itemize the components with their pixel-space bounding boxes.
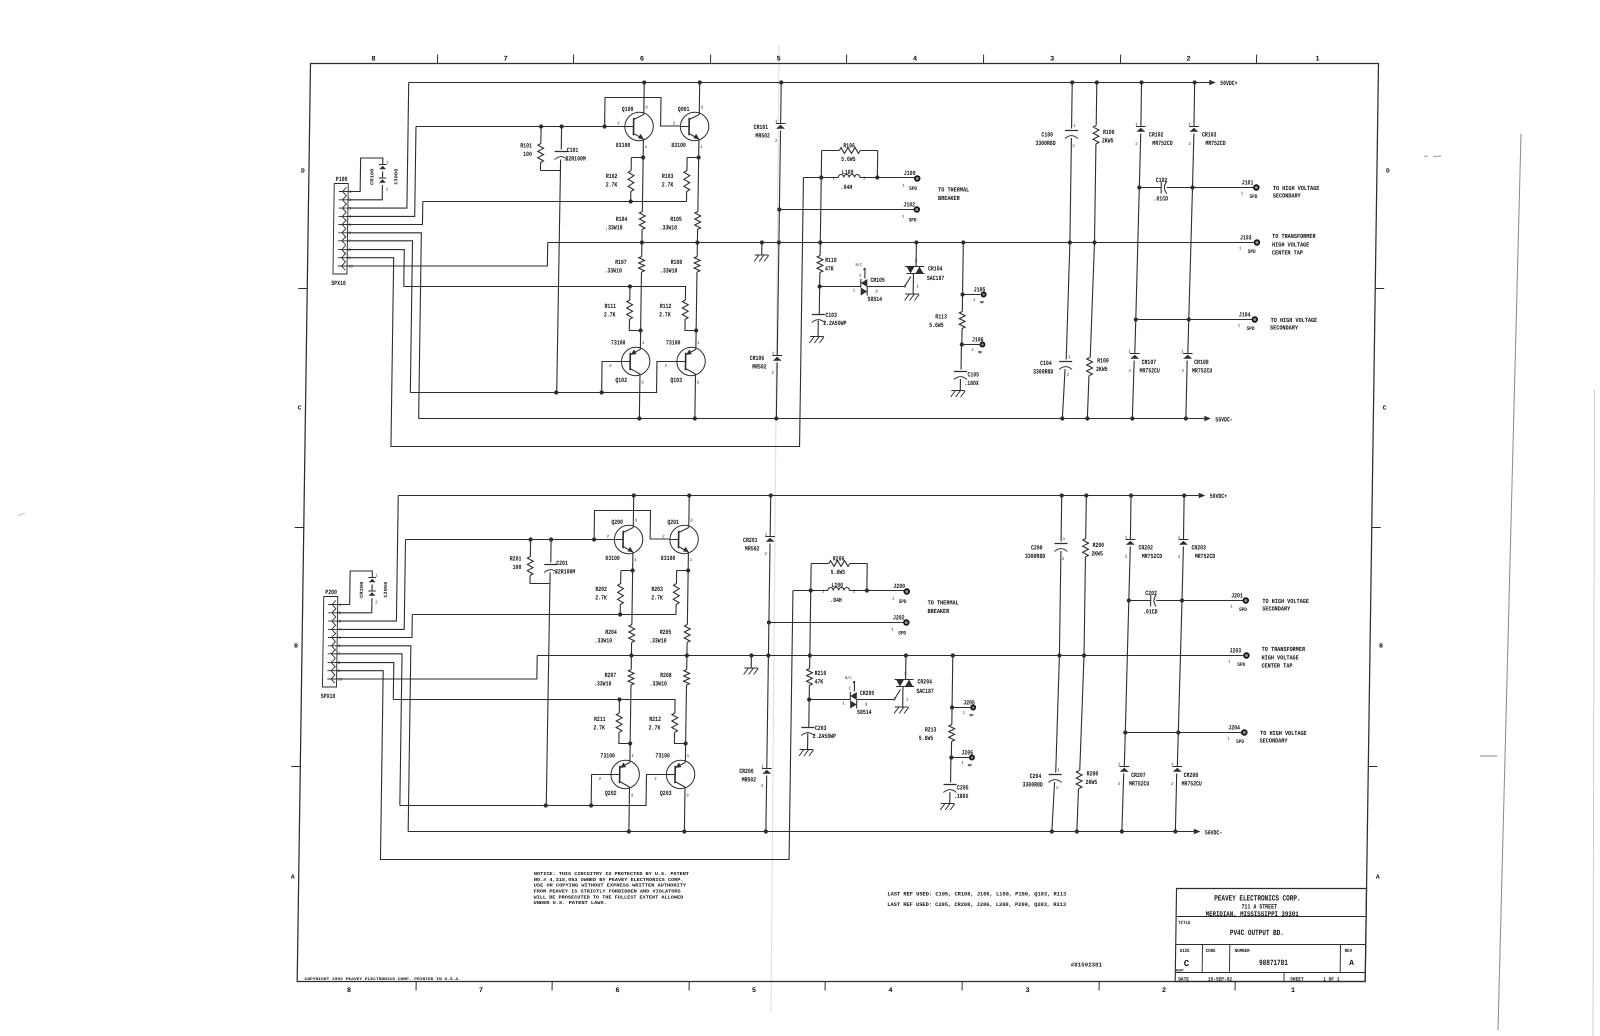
svg-text:SPD: SPD bbox=[1248, 249, 1256, 255]
svg-text:R200: R200 bbox=[1087, 771, 1099, 778]
svg-text:PV4C OUTPUT BD.: PV4C OUTPUT BD. bbox=[1230, 929, 1284, 938]
svg-text:J202: J202 bbox=[893, 615, 905, 622]
svg-text:1: 1 bbox=[634, 559, 637, 563]
svg-text:SPD: SPD bbox=[899, 599, 907, 605]
resistor R105 bbox=[695, 212, 701, 230]
wire pin4 to base drive line bbox=[337, 540, 405, 630]
wire pin8 to R-divider rail bbox=[336, 663, 394, 700]
junction J104 bbox=[1252, 317, 1257, 322]
svg-text:D: D bbox=[301, 168, 305, 175]
svg-text:SPD: SPD bbox=[1237, 662, 1245, 668]
svg-text:2.7K: 2.7K bbox=[659, 311, 671, 318]
inductor L100 bbox=[803, 177, 838, 179]
diode CR203 bbox=[1182, 496, 1185, 540]
svg-text:1: 1 bbox=[1073, 125, 1076, 129]
wire Q100 emitter column bbox=[632, 554, 633, 625]
svg-text:CR207: CR207 bbox=[1131, 772, 1146, 779]
wire C101 column bbox=[546, 573, 550, 806]
svg-text:MR752CU: MR752CU bbox=[1139, 367, 1159, 374]
wire pin6 to negative rail bbox=[345, 233, 421, 419]
svg-text:2.7K: 2.7K bbox=[606, 181, 618, 188]
svg-text:CODE: CODE bbox=[1206, 948, 1216, 954]
connector P200 SPX10 bbox=[322, 597, 337, 688]
svg-text:C: C bbox=[298, 405, 302, 412]
wire RL left link bbox=[820, 151, 822, 178]
junction J201 bbox=[1243, 598, 1248, 603]
junction J200 bbox=[904, 589, 909, 594]
svg-text:2: 2 bbox=[904, 673, 907, 677]
svg-text:3: 3 bbox=[690, 520, 693, 524]
wire RL left link bbox=[810, 564, 812, 591]
svg-text:B: B bbox=[294, 643, 298, 650]
svg-text:SPD: SPD bbox=[909, 186, 917, 192]
svg-text:1: 1 bbox=[1057, 769, 1060, 773]
svg-text:1: 1 bbox=[902, 184, 905, 188]
svg-text:1: 1 bbox=[842, 703, 845, 707]
svg-text:MERIDIAN, MISSISSIPPI 3930: MERIDIAN, MISSISSIPPI 39301 bbox=[1206, 911, 1299, 919]
svg-text:CR105: CR105 bbox=[870, 277, 885, 284]
wire 56VDC- rail bbox=[408, 831, 1194, 833]
svg-text:1: 1 bbox=[1063, 538, 1066, 542]
wire Q103 emitter column bbox=[694, 376, 697, 419]
svg-text:6: 6 bbox=[615, 987, 619, 995]
svg-text:MP: MP bbox=[970, 714, 975, 718]
svg-text:R204: R204 bbox=[605, 629, 617, 636]
wire pin4 to base drive line bbox=[348, 127, 416, 217]
resistor R201 bbox=[529, 540, 531, 557]
wire R113 column bbox=[951, 656, 954, 708]
svg-text:1: 1 bbox=[631, 755, 634, 759]
svg-text:2: 2 bbox=[761, 785, 764, 789]
svg-text:15-SEP-92: 15-SEP-92 bbox=[1208, 976, 1232, 982]
ground bbox=[761, 243, 763, 256]
svg-text:J205: J205 bbox=[963, 700, 975, 707]
svg-text:Q103: Q103 bbox=[670, 377, 682, 384]
svg-text:2: 2 bbox=[1135, 143, 1138, 147]
svg-text:2: 2 bbox=[607, 536, 610, 540]
svg-text:711 A STREET: 711 A STREET bbox=[1241, 904, 1277, 911]
capacitor C205 bbox=[944, 784, 957, 786]
svg-text:PEAVEY ELECTRONICS CORP.: PEAVEY ELECTRONICS CORP. bbox=[1214, 895, 1301, 904]
svg-text:8: 8 bbox=[371, 56, 375, 64]
svg-text:J100: J100 bbox=[904, 170, 916, 177]
wire rectifier column bbox=[769, 544, 770, 623]
svg-text:R106: R106 bbox=[843, 143, 855, 150]
wire bias rail bbox=[423, 201, 687, 203]
svg-text:R105: R105 bbox=[670, 216, 682, 223]
svg-text:CR206: CR206 bbox=[739, 768, 754, 775]
svg-text:C103: C103 bbox=[825, 312, 837, 319]
svg-text:TO HIGH VOLTAGE: TO HIGH VOLTAGE bbox=[1271, 317, 1318, 324]
svg-text:NUMBER: NUMBER bbox=[1235, 948, 1250, 954]
svg-text:SECONDARY: SECONDARY bbox=[1273, 193, 1301, 200]
svg-text:CENTER TAP: CENTER TAP bbox=[1272, 250, 1303, 257]
junction J104 wire bbox=[1136, 319, 1253, 321]
svg-text:1 OF 1: 1 OF 1 bbox=[1323, 976, 1339, 982]
svg-text:J200: J200 bbox=[893, 583, 905, 590]
svg-text:SECONDARY: SECONDARY bbox=[1270, 325, 1298, 332]
svg-text:56VDC-: 56VDC- bbox=[1205, 830, 1223, 837]
resistor R213 bbox=[949, 725, 955, 742]
capacitor C105 bbox=[954, 371, 967, 373]
resistor R106 bbox=[822, 150, 840, 152]
svg-text:.01CD: .01CD bbox=[1153, 195, 1168, 202]
svg-text:1: 1 bbox=[973, 299, 976, 303]
ground bbox=[800, 749, 814, 751]
svg-text:TITLE: TITLE bbox=[1178, 920, 1191, 926]
svg-text:J104: J104 bbox=[1239, 312, 1251, 319]
svg-text:C: C bbox=[1383, 405, 1387, 412]
svg-text:COPYRIGHT 1992 PEAVEY ELEC: COPYRIGHT 1992 PEAVEY ELECTRONICS CORP. … bbox=[304, 978, 460, 982]
capacitor C102 bbox=[1139, 187, 1161, 189]
svg-text:J103: J103 bbox=[1240, 235, 1252, 242]
svg-text:2: 2 bbox=[848, 688, 851, 692]
svg-text:CR108: CR108 bbox=[1194, 359, 1209, 366]
svg-text:SPX10: SPX10 bbox=[331, 280, 346, 287]
svg-text:2: 2 bbox=[764, 553, 767, 557]
scan artifact page edge line bbox=[1498, 134, 1521, 1030]
ground bbox=[895, 706, 909, 708]
diode CR106 bbox=[772, 355, 782, 357]
sidac CR205 bbox=[809, 699, 850, 701]
svg-text:1: 1 bbox=[1227, 738, 1230, 742]
svg-text:N/C: N/C bbox=[845, 676, 852, 681]
svg-text:C200: C200 bbox=[1031, 545, 1043, 552]
svg-text:47K: 47K bbox=[825, 265, 834, 272]
svg-text:1: 1 bbox=[963, 712, 966, 716]
svg-text:C204: C204 bbox=[1030, 773, 1042, 780]
svg-text:1: 1 bbox=[891, 629, 894, 633]
wire CR103 column lower bbox=[1178, 601, 1182, 733]
svg-text:R212: R212 bbox=[649, 716, 661, 723]
resistor R100 bbox=[1095, 83, 1098, 126]
resistor R111 bbox=[629, 287, 631, 301]
wire base drive line bbox=[405, 539, 614, 541]
wire divider rail bbox=[404, 287, 686, 301]
wire Q100 collector column bbox=[643, 83, 645, 113]
junction J101 bbox=[1254, 185, 1259, 190]
capacitor C104 bbox=[1066, 243, 1070, 360]
svg-text:2: 2 bbox=[1118, 783, 1121, 787]
svg-text:2: 2 bbox=[853, 591, 856, 595]
svg-text:MR752CD: MR752CD bbox=[1152, 140, 1172, 147]
scan artifact faint right edge bbox=[1593, 390, 1595, 1036]
svg-text:SAC187: SAC187 bbox=[927, 275, 945, 282]
resistor R101 bbox=[540, 127, 542, 144]
svg-text:HIGH VOLTAGE: HIGH VOLTAGE bbox=[1262, 654, 1300, 661]
resistor R200 lower bbox=[1080, 656, 1084, 771]
svg-text:3: 3 bbox=[631, 795, 634, 799]
svg-text:R102: R102 bbox=[606, 173, 618, 180]
svg-text:CR103: CR103 bbox=[1202, 132, 1217, 139]
ground bbox=[810, 336, 824, 338]
svg-text:2: 2 bbox=[1162, 987, 1166, 995]
svg-text:N/C: N/C bbox=[856, 263, 863, 268]
svg-text:3: 3 bbox=[875, 291, 878, 295]
svg-text:TO THERMAL: TO THERMAL bbox=[938, 186, 969, 193]
junction J103 bbox=[1254, 240, 1259, 245]
resistor R202 bbox=[621, 570, 633, 572]
wire 56VDC- rail bbox=[419, 418, 1205, 420]
ground bbox=[951, 390, 965, 392]
capacitor C200 bbox=[1060, 496, 1063, 542]
resistor R113 bbox=[959, 312, 965, 329]
wire pin5 to bias rail bbox=[348, 202, 423, 225]
svg-text:J201: J201 bbox=[1231, 593, 1243, 600]
wire driver base rail bbox=[410, 362, 677, 393]
scan artifact vertical streak bbox=[771, 45, 779, 1012]
wire Q001 emitter column bbox=[687, 554, 688, 625]
svg-text:2.7K: 2.7K bbox=[662, 181, 674, 188]
svg-text:R207: R207 bbox=[605, 672, 617, 679]
capacitor C202 bbox=[1129, 600, 1151, 602]
svg-text:.33W10: .33W10 bbox=[595, 637, 613, 644]
wire bias rail bbox=[412, 614, 676, 616]
svg-text:CR100: CR100 bbox=[369, 168, 375, 185]
svg-text:83100: 83100 bbox=[661, 555, 676, 562]
wire Q001 collector column bbox=[698, 83, 700, 113]
transistor Q200 bbox=[614, 525, 643, 553]
svg-text:1: 1 bbox=[971, 349, 974, 353]
resistor R207 bbox=[628, 670, 634, 686]
transistor Q103 bbox=[677, 347, 706, 375]
svg-text:L200: L200 bbox=[831, 582, 843, 589]
diode CR202 bbox=[1129, 496, 1132, 540]
svg-text:CR208: CR208 bbox=[1184, 772, 1199, 779]
resistor R203 bbox=[677, 570, 689, 572]
svg-text:J101: J101 bbox=[1242, 180, 1254, 187]
resistor R212 bbox=[672, 713, 678, 732]
ground bbox=[941, 803, 955, 805]
diode CR103 bbox=[1193, 83, 1196, 127]
svg-text:WILL BE PROSECUTED TO THE: WILL BE PROSECUTED TO THE FULLEST EXTENT… bbox=[534, 894, 684, 900]
svg-text:MR502: MR502 bbox=[745, 545, 760, 552]
wire C101 column bbox=[557, 160, 561, 393]
diode CR100 bbox=[379, 164, 387, 166]
transistor Q202 bbox=[611, 760, 640, 788]
resistor R206 bbox=[811, 563, 829, 565]
svg-text:.22R100M: .22R100M bbox=[552, 569, 575, 576]
svg-text:TO HIGH VOLTAGE: TO HIGH VOLTAGE bbox=[1260, 730, 1307, 737]
wire divider rail bbox=[393, 700, 675, 714]
drawing border frame bbox=[297, 64, 1378, 982]
svg-text:Q102: Q102 bbox=[615, 377, 627, 384]
capacitor C204 bbox=[1056, 656, 1060, 773]
svg-text:13006: 13006 bbox=[383, 581, 389, 598]
svg-text:R103: R103 bbox=[662, 173, 674, 180]
svg-text:SIZE: SIZE bbox=[1180, 948, 1190, 954]
svg-text:R211: R211 bbox=[594, 716, 606, 723]
wire CR102 column lower bbox=[1125, 601, 1129, 733]
svg-text:3: 3 bbox=[635, 520, 638, 524]
svg-text:.33W10: .33W10 bbox=[605, 224, 623, 231]
svg-text:B: B bbox=[1379, 643, 1383, 650]
svg-text:2: 2 bbox=[1062, 558, 1065, 562]
ground bbox=[905, 293, 919, 295]
svg-text:2KW5: 2KW5 bbox=[1096, 366, 1108, 373]
svg-text:HIGH VOLTAGE: HIGH VOLTAGE bbox=[1272, 241, 1310, 248]
wire pin7 to lower base rail bbox=[345, 241, 412, 393]
svg-text:3: 3 bbox=[893, 699, 896, 703]
svg-text:TO TRANSFORMER: TO TRANSFORMER bbox=[1272, 233, 1316, 240]
svg-text:NOTICE: THIS CIRCUITRY IS: NOTICE: THIS CIRCUITRY IS PROTECTED BY U… bbox=[534, 871, 689, 877]
svg-text:2.7K: 2.7K bbox=[651, 594, 663, 601]
svg-text:TO TRANSFORMER: TO TRANSFORMER bbox=[1262, 646, 1306, 653]
wire RL right link bbox=[876, 151, 878, 178]
svg-text:MR752CD: MR752CD bbox=[1142, 553, 1162, 560]
svg-text:1: 1 bbox=[697, 342, 700, 346]
svg-text:Q200: Q200 bbox=[611, 519, 623, 526]
svg-text:R208: R208 bbox=[660, 672, 672, 679]
wire Q102 emitter column bbox=[638, 376, 641, 419]
svg-text:5.6W5: 5.6W5 bbox=[929, 322, 944, 329]
svg-text:R101: R101 bbox=[520, 143, 532, 150]
wire pin3 to positive rail bbox=[348, 83, 409, 209]
svg-text:A: A bbox=[1376, 874, 1380, 881]
svg-text:2: 2 bbox=[1056, 787, 1059, 791]
svg-text:100: 100 bbox=[523, 151, 532, 158]
wire driver base rail bbox=[400, 775, 667, 806]
svg-text:1: 1 bbox=[1068, 356, 1071, 360]
svg-text:R111: R111 bbox=[604, 303, 616, 310]
svg-text:SPD: SPD bbox=[898, 631, 906, 637]
capacitor C100 bbox=[1071, 83, 1074, 129]
svg-text:J206: J206 bbox=[961, 750, 973, 757]
resistor R211 bbox=[618, 700, 620, 714]
svg-text:R202: R202 bbox=[595, 586, 607, 593]
svg-text:3: 3 bbox=[904, 286, 907, 290]
svg-text:R100: R100 bbox=[1103, 129, 1115, 136]
svg-text:C105: C105 bbox=[967, 372, 979, 379]
resistor R208 bbox=[684, 670, 690, 686]
svg-text:P100: P100 bbox=[336, 176, 348, 183]
svg-text:USE OR COPYING WITHOUT EX: USE OR COPYING WITHOUT EXPRESS WRITTEN A… bbox=[534, 883, 687, 889]
svg-text:83100: 83100 bbox=[616, 142, 631, 149]
svg-text:73100: 73100 bbox=[655, 753, 670, 760]
transistor Q100 bbox=[625, 112, 654, 140]
wire RL right link bbox=[866, 564, 868, 591]
svg-text:5: 5 bbox=[752, 987, 756, 995]
svg-text:1: 1 bbox=[832, 178, 835, 182]
svg-text:1: 1 bbox=[1239, 248, 1242, 252]
svg-text:C202: C202 bbox=[1145, 590, 1157, 597]
resistor R100 lower bbox=[1090, 243, 1094, 358]
wire output rail to center tap bbox=[548, 242, 1254, 244]
svg-text:1: 1 bbox=[961, 762, 964, 766]
svg-text:.33W10: .33W10 bbox=[660, 224, 678, 231]
svg-text:8: 8 bbox=[347, 987, 351, 995]
svg-text:1: 1 bbox=[1315, 56, 1319, 64]
wire CR102 column lower bbox=[1136, 188, 1140, 320]
svg-text:SPD: SPD bbox=[1236, 739, 1244, 745]
svg-text:3300R8D: 3300R8D bbox=[1033, 369, 1053, 376]
svg-text:83100: 83100 bbox=[605, 555, 620, 562]
capacitor C103 bbox=[818, 287, 820, 315]
wire output rail to center tap bbox=[537, 655, 1243, 657]
wire Q102 base link bbox=[591, 775, 611, 806]
scan artifact top dashes bbox=[1424, 155, 1428, 158]
svg-text:1: 1 bbox=[645, 146, 648, 150]
svg-text:83100: 83100 bbox=[671, 142, 686, 149]
svg-text:SAC187: SAC187 bbox=[916, 688, 934, 695]
svg-text:UNDER U.S. PATENT LAWS.: UNDER U.S. PATENT LAWS. bbox=[533, 900, 606, 906]
svg-text:J105: J105 bbox=[974, 287, 986, 294]
svg-text:6: 6 bbox=[640, 56, 644, 64]
wire Q102 emitter column bbox=[628, 789, 631, 832]
svg-text:R213: R213 bbox=[925, 727, 937, 734]
resistor R205 bbox=[684, 625, 690, 643]
svg-text:MR502: MR502 bbox=[752, 363, 767, 370]
diode CR208 bbox=[1173, 766, 1183, 768]
diode 13006 bbox=[379, 177, 387, 179]
diode CR101 bbox=[780, 83, 783, 124]
svg-text:.33W10: .33W10 bbox=[594, 680, 612, 687]
svg-text:SHEET: SHEET bbox=[1290, 976, 1304, 982]
svg-text:Q201: Q201 bbox=[667, 519, 679, 526]
junction J206 bbox=[951, 757, 969, 759]
svg-text:2: 2 bbox=[617, 123, 620, 127]
svg-text:2: 2 bbox=[859, 275, 862, 279]
wire pin10 to output rail bbox=[347, 243, 548, 267]
svg-text:2: 2 bbox=[1128, 370, 1131, 374]
svg-text:73100: 73100 bbox=[611, 340, 626, 347]
svg-text:.180X: .180X bbox=[964, 380, 979, 387]
resistor R200 bbox=[1085, 496, 1088, 539]
svg-text:MP: MP bbox=[980, 301, 985, 305]
svg-text:3: 3 bbox=[1050, 56, 1054, 64]
svg-text:1: 1 bbox=[1291, 987, 1295, 995]
svg-text:MGMT: MGMT bbox=[1176, 969, 1185, 973]
svg-text:SPD: SPD bbox=[909, 218, 917, 224]
svg-text:MR752CD: MR752CD bbox=[1205, 140, 1225, 147]
svg-text:SPX10: SPX10 bbox=[321, 693, 336, 700]
inductor L200 bbox=[793, 590, 828, 592]
svg-text:CR203: CR203 bbox=[1191, 545, 1206, 552]
wire Q001 collector column bbox=[688, 496, 690, 526]
svg-text:3: 3 bbox=[701, 107, 704, 111]
wire R113 column bbox=[962, 243, 965, 295]
junction J205 bbox=[952, 707, 970, 709]
svg-text:MP: MP bbox=[968, 764, 973, 768]
svg-text:BREAKER: BREAKER bbox=[938, 195, 960, 202]
svg-text:SECONDARY: SECONDARY bbox=[1260, 738, 1288, 745]
svg-text:2.7K: 2.7K bbox=[593, 724, 605, 731]
svg-text:2.2A50WP: 2.2A50WP bbox=[813, 733, 836, 740]
svg-text:1: 1 bbox=[700, 146, 703, 150]
svg-text:C102: C102 bbox=[1156, 177, 1168, 184]
svg-text:2: 2 bbox=[1072, 145, 1075, 149]
wire Q103 collector column bbox=[696, 243, 698, 257]
wire Q100 emitter column bbox=[642, 141, 643, 212]
wire 56VDC+ rail bbox=[398, 495, 1199, 497]
svg-text:3: 3 bbox=[1025, 987, 1029, 995]
transistor Q102 bbox=[621, 347, 650, 375]
wire Q102 collector column bbox=[641, 243, 643, 257]
svg-text:2: 2 bbox=[375, 602, 378, 606]
svg-text:L100: L100 bbox=[842, 169, 854, 176]
svg-text:.33W10: .33W10 bbox=[649, 680, 667, 687]
svg-text:CR107: CR107 bbox=[1142, 359, 1157, 366]
svg-text:MR752CU: MR752CU bbox=[1182, 780, 1202, 787]
wire Q102 collector column bbox=[630, 656, 632, 670]
svg-text:2.7K: 2.7K bbox=[649, 724, 661, 731]
title block frame bbox=[1175, 889, 1366, 982]
svg-text:1: 1 bbox=[853, 290, 856, 294]
svg-text:CR102: CR102 bbox=[1149, 132, 1164, 139]
svg-text:R210: R210 bbox=[815, 670, 827, 677]
wire Q100 collector column bbox=[632, 496, 634, 526]
resistor R103 bbox=[687, 157, 699, 159]
